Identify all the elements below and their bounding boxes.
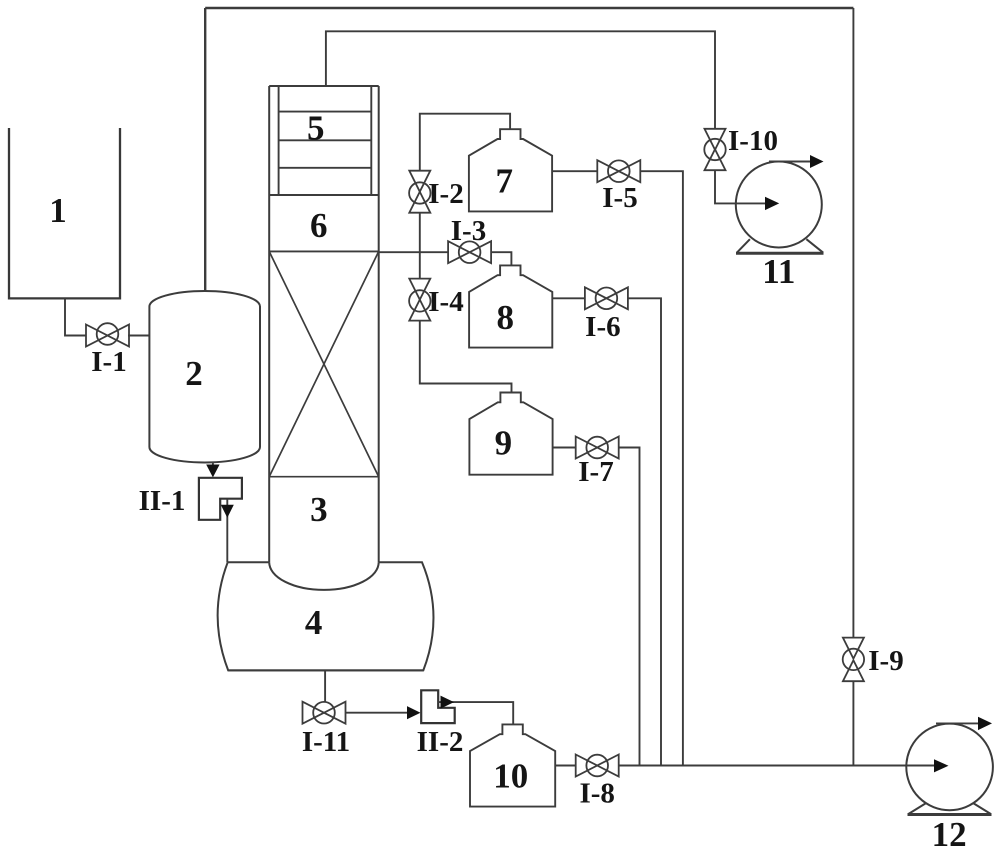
svg-text:9: 9	[495, 424, 513, 463]
svg-text:I-4: I-4	[428, 286, 463, 318]
svg-text:I-1: I-1	[91, 346, 126, 378]
wire vessel 4 outlet to valve I-11	[324, 670, 326, 702]
wire valve I-7 to bottom header	[619, 448, 640, 766]
valve I-6	[585, 287, 628, 309]
valve I-4	[409, 279, 430, 321]
column section 5 tray internals	[269, 86, 379, 195]
svg-text:I-8: I-8	[579, 778, 614, 810]
node pump 11 inlet arrowhead	[765, 197, 779, 210]
wire pump 12 discharge arrow	[936, 722, 979, 724]
valve I-11	[303, 702, 346, 724]
svg-text:8: 8	[496, 298, 514, 337]
svg-text:4: 4	[305, 603, 323, 642]
svg-text:I-11: I-11	[302, 726, 350, 758]
wire vessel 10 outlet to valve I-8	[555, 765, 576, 767]
valve I-1	[86, 323, 129, 346]
wire II-2 to vessel 10	[438, 702, 513, 724]
valve I-7	[576, 437, 619, 459]
svg-text:2: 2	[185, 354, 203, 393]
wire vessel 4 bottom edge	[228, 669, 423, 671]
svg-text:11: 11	[762, 252, 795, 291]
wire bottom header to pump 12	[619, 765, 935, 767]
wire vessel 2 outlet arrow	[212, 462, 214, 467]
wire vessel 9 outlet to valve I-7	[553, 447, 576, 449]
wire valve I-1 to vessel 2	[128, 335, 150, 337]
valve I-10	[704, 129, 725, 170]
wire top loop left vertical to vessel 2	[204, 8, 206, 293]
vessel 8	[469, 265, 552, 347]
wire valve I-4 to vessel 9	[420, 321, 512, 393]
vessel 7	[469, 129, 552, 211]
wire column side draw to valve I-3	[379, 251, 448, 253]
svg-text:II-1: II-1	[139, 485, 186, 517]
svg-text:I-6: I-6	[585, 311, 620, 343]
wire II-1 outlet to vessel 4	[226, 499, 228, 563]
svg-text:II-2: II-2	[417, 726, 464, 758]
svg-text:I-7: I-7	[578, 456, 613, 488]
valve I-2	[409, 171, 430, 213]
valve I-5	[597, 160, 640, 182]
wire valve I-11 to II-2 arrow	[346, 712, 409, 714]
svg-text:I-2: I-2	[428, 178, 463, 210]
wire valve I-6 to bottom header	[628, 298, 661, 765]
wire valve I-3 to vessel 8	[491, 252, 511, 265]
valve I-9	[843, 638, 864, 682]
svg-text:I-10: I-10	[728, 125, 778, 157]
wire vessel 7 outlet to valve I-5	[552, 170, 597, 172]
column packing X section 3	[269, 251, 379, 476]
distributor II-2	[421, 690, 455, 723]
vessel 4	[218, 562, 434, 670]
valve I-3	[448, 241, 491, 263]
wire top loop right vertical to valve I-9	[852, 8, 854, 638]
vessel 9	[469, 393, 552, 475]
wire valve I-10 to pump 11 inlet	[715, 170, 767, 203]
svg-text:I-3: I-3	[451, 215, 486, 247]
pump 12	[906, 724, 993, 815]
vessel 10	[470, 724, 555, 806]
column section 6	[269, 250, 379, 252]
svg-text:10: 10	[493, 757, 528, 796]
distributor II-1	[199, 478, 242, 520]
vessel 2	[149, 291, 260, 463]
wire vessel 7 overhead to valve I-2	[420, 114, 510, 171]
wire valve I-2 to valve I-4	[419, 213, 421, 279]
svg-text:I-5: I-5	[602, 182, 637, 214]
wire valve I-9 to bottom header	[852, 681, 854, 765]
wire vessel 8 outlet to valve I-6	[552, 297, 585, 299]
svg-text:1: 1	[49, 191, 67, 230]
wire pump 11 discharge arrow	[769, 161, 811, 163]
wire valve I-5 to bottom header	[640, 171, 683, 765]
wire tank 1 outlet to valve I-1	[65, 298, 87, 335]
svg-text:6: 6	[310, 206, 328, 245]
valve I-8	[576, 755, 619, 777]
svg-text:5: 5	[307, 109, 325, 148]
svg-text:12: 12	[932, 815, 967, 851]
wire top recycle loop horizontal	[205, 7, 853, 10]
column shell	[269, 86, 379, 562]
column bottom dome	[269, 562, 379, 590]
wire column overhead line	[326, 31, 715, 129]
pump 11	[736, 162, 824, 254]
svg-text:3: 3	[310, 490, 328, 529]
svg-text:I-9: I-9	[868, 645, 903, 677]
tank 1	[9, 128, 120, 298]
svg-text:7: 7	[495, 162, 513, 201]
